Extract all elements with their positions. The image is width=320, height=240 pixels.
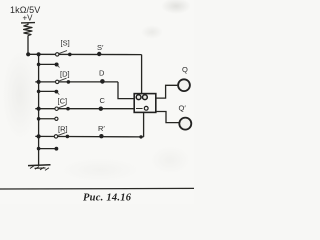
wire: C row line <box>35 108 134 110</box>
IC box U1 (flip-flop) <box>134 94 156 113</box>
switch C lever <box>58 105 66 108</box>
wire: R row line <box>35 135 143 138</box>
switch R open contact <box>54 135 57 138</box>
switch S fixed contact <box>68 53 72 57</box>
switch C open contact <box>55 107 58 110</box>
svg-text:[D]: [D] <box>60 70 70 79</box>
wire: R' riser to IC box bottom <box>143 112 145 136</box>
+V supply terminal <box>21 14 35 26</box>
node C dot <box>99 107 103 111</box>
ground <box>28 165 51 171</box>
stub for switch C (bus tap) <box>37 117 58 121</box>
stub for switch S (bus tap) <box>37 63 60 68</box>
node: bus/D junction <box>37 80 41 84</box>
svg-text:[S]: [S] <box>61 38 70 47</box>
wire: resistor leg down to S row <box>27 36 29 55</box>
IC lower circle <box>144 106 148 110</box>
switch S open contact <box>56 53 59 56</box>
switch D open contact <box>56 80 59 83</box>
vertical bus from S row to ground <box>38 54 40 164</box>
IC pin circle left <box>136 95 141 100</box>
wire: Q output to lamp <box>156 85 178 98</box>
svg-text:Рис. 14.16: Рис. 14.16 <box>83 193 132 204</box>
svg-text:Q′: Q′ <box>179 103 187 112</box>
IC lower dash <box>136 108 143 110</box>
switch D lever <box>59 78 67 81</box>
svg-text:C: C <box>100 96 106 105</box>
svg-text:D: D <box>99 69 105 78</box>
node R' dot <box>99 134 103 138</box>
IC pin circle right <box>143 95 148 100</box>
lamp Q <box>178 79 190 91</box>
paper background <box>0 0 194 204</box>
switch C fixed contact <box>66 107 70 111</box>
switch R lever <box>58 133 66 136</box>
node: bus/S junction <box>37 52 41 56</box>
switch R fixed contact <box>66 135 70 139</box>
wire: S' drop to IC box top <box>141 55 143 94</box>
node: resistor/S-row junction <box>26 52 30 56</box>
resistor R (1k pull-up) <box>24 25 32 36</box>
lamp Q' <box>179 118 191 130</box>
svg-text:Q: Q <box>182 65 188 74</box>
svg-text:[C]: [C] <box>58 97 68 106</box>
node: R corner dot <box>139 135 142 138</box>
node: bus/R junction <box>37 134 41 138</box>
switch D fixed contact <box>67 80 71 84</box>
node: bus/C junction <box>37 107 41 111</box>
svg-text:R′: R′ <box>98 124 105 133</box>
svg-text:[R]: [R] <box>58 125 68 134</box>
wire: S row line <box>28 53 142 55</box>
wire: Q' output to lamp <box>156 112 179 123</box>
caption rule <box>0 187 194 190</box>
node S' dot <box>97 52 101 56</box>
svg-text:+V: +V <box>23 14 34 23</box>
wire: D drop and run to IC box <box>118 82 134 99</box>
switch S lever <box>59 51 67 54</box>
stub for switch R (bus tap) <box>37 147 59 151</box>
stub for switch D (bus tap) <box>37 90 60 95</box>
svg-text:S′: S′ <box>97 43 104 52</box>
node D dot <box>100 79 105 84</box>
wire: D row line <box>35 81 118 83</box>
